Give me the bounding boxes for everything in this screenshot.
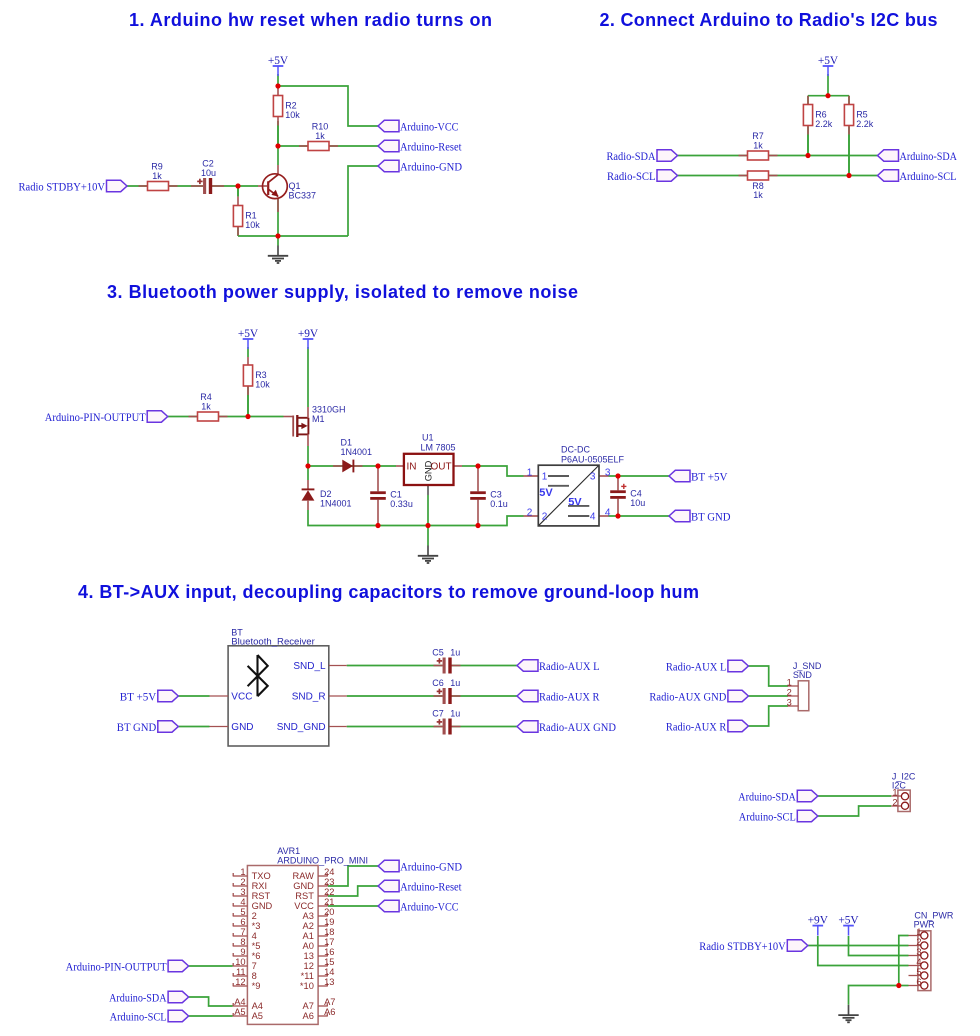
- svg-text:*9: *9: [252, 981, 261, 991]
- svg-text:+5V: +5V: [818, 55, 839, 67]
- net label Arduino-SCL (section 2): [878, 170, 957, 183]
- net label BT GND (section 3): [669, 510, 731, 523]
- power symbol +9V (CN_PWR): [808, 914, 829, 935]
- wire +9V down to M1 source: [307, 347, 309, 407]
- svg-text:6: 6: [916, 977, 921, 987]
- wire Radio-AUX GND to J_SND pin2: [748, 695, 788, 697]
- capacitor C2 10u: [191, 158, 224, 194]
- wire R2 bottom to junction: [277, 121, 279, 146]
- svg-text:A4: A4: [252, 1001, 263, 1011]
- AVR1 pin 13 (*10): [300, 977, 335, 991]
- svg-text:2: 2: [787, 687, 792, 697]
- mosfet M1 3310GH: [284, 405, 346, 447]
- svg-text:Arduino-SDA: Arduino-SDA: [900, 151, 958, 163]
- svg-text:10k: 10k: [255, 379, 270, 389]
- AVR1 pin A7 (A7): [303, 997, 336, 1011]
- wire Radio-SDA through R7 to Arduino-SDA: [678, 155, 878, 157]
- svg-text:1k: 1k: [753, 190, 763, 200]
- svg-text:10: 10: [235, 957, 245, 967]
- svg-text:Q1: Q1: [289, 181, 301, 191]
- ground (CN_PWR): [838, 1005, 858, 1023]
- svg-text:ARDUINO_PRO_MINI: ARDUINO_PRO_MINI: [277, 855, 368, 865]
- svg-text:Arduino-SDA: Arduino-SDA: [738, 792, 796, 804]
- CN_PWR pin 2: [909, 937, 928, 949]
- resistor R8 1k: [739, 171, 778, 200]
- net label Radio-SDA: [607, 150, 678, 163]
- junction C4 top / BT+5V: [615, 473, 620, 478]
- wire BT+5V flag to VCC pin: [178, 695, 209, 697]
- svg-text:5V: 5V: [539, 487, 553, 499]
- capacitor C6 1u: [432, 678, 460, 704]
- resistor R9 1k: [139, 162, 178, 191]
- wire emitter to ground rail: [277, 198, 279, 236]
- svg-text:R5: R5: [856, 109, 868, 119]
- svg-text:2: 2: [916, 937, 921, 947]
- net label Arduino-SCL (J_I2C): [739, 810, 818, 823]
- svg-text:IN: IN: [407, 461, 417, 472]
- svg-text:VCC: VCC: [231, 692, 252, 703]
- junction R6 / SDA: [805, 153, 810, 158]
- AVR1 pin 7 (4): [233, 927, 257, 941]
- AVR1 pin A6 (A6): [303, 1007, 336, 1021]
- ground (section 3): [418, 546, 438, 564]
- svg-text:11: 11: [236, 967, 246, 977]
- svg-text:BT +5V: BT +5V: [691, 472, 728, 484]
- svg-text:Arduino-GND: Arduino-GND: [400, 162, 462, 174]
- svg-text:BT +5V: BT +5V: [120, 692, 157, 704]
- junction U1 GND rail: [425, 523, 430, 528]
- svg-text:1: 1: [892, 787, 897, 797]
- svg-text:12: 12: [304, 961, 314, 971]
- wire D2 bottom to rail: [308, 510, 378, 526]
- AVR1 pin 19 (A2): [303, 917, 335, 931]
- BT pin SND_L: [329, 665, 347, 667]
- svg-text:BT GND: BT GND: [691, 512, 731, 524]
- AVR1 pin 21 (VCC): [294, 897, 334, 911]
- svg-text:3310GH: 3310GH: [312, 405, 346, 415]
- wire +5V stub to junction: [277, 74, 279, 86]
- resistor R3 10k: [243, 357, 270, 417]
- svg-text:D2: D2: [320, 489, 332, 499]
- connector CN_PWR: [909, 910, 954, 990]
- junction C1 bottom rail: [375, 523, 380, 528]
- svg-text:9: 9: [240, 947, 245, 957]
- svg-text:2: 2: [252, 911, 257, 921]
- AVR1 pin 2 (RXI): [233, 877, 267, 891]
- net label Arduino-PIN-OUTPUT (section 3): [45, 411, 168, 424]
- wire Arduino-PIN-OUTPUT flag to pin10: [189, 965, 233, 967]
- svg-text:Radio-AUX L: Radio-AUX L: [539, 661, 600, 673]
- svg-text:C2: C2: [202, 158, 214, 168]
- AVR1 pin 3 (RST): [233, 887, 271, 901]
- wire bottom rail: [378, 516, 524, 526]
- wire drain node down to D2: [307, 466, 309, 480]
- wire U1 OUT to C3 node: [462, 465, 478, 467]
- BT pin SND_GND: [329, 726, 347, 728]
- wire +5V to R3: [247, 347, 249, 357]
- net label Arduino-SCL (AVR): [110, 1010, 189, 1023]
- resistor R10 1k: [299, 122, 338, 151]
- svg-text:+5V: +5V: [238, 328, 259, 340]
- svg-text:+9V: +9V: [298, 328, 319, 340]
- svg-text:Radio-AUX R: Radio-AUX R: [666, 722, 727, 734]
- resistor R2 10k: [273, 87, 300, 147]
- resistor R1 10k: [233, 186, 260, 236]
- svg-text:R2: R2: [285, 100, 297, 110]
- svg-text:20: 20: [324, 907, 334, 917]
- svg-text:1. Arduino hw reset when radio: 1. Arduino hw reset when radio turns on: [129, 10, 492, 30]
- transistor Q1 BC337: [258, 165, 316, 212]
- junction CN_PWR ground node: [896, 983, 901, 988]
- svg-text:Arduino-GND: Arduino-GND: [400, 862, 462, 874]
- svg-text:7: 7: [252, 961, 257, 971]
- svg-text:RST: RST: [252, 891, 271, 901]
- BT pin GND: [210, 726, 229, 728]
- AVR1 pin 1 (TXO): [233, 867, 271, 881]
- svg-text:Arduino-Reset: Arduino-Reset: [400, 142, 462, 154]
- ground (section 1): [268, 246, 288, 264]
- svg-text:C5: C5: [432, 648, 444, 658]
- svg-text:10u: 10u: [201, 168, 216, 178]
- wire drain node through D1 to C1 node: [308, 465, 378, 467]
- wire +5V down to pin3: [849, 936, 909, 956]
- svg-text:4: 4: [590, 511, 596, 522]
- J_I2C pin 2: [891, 805, 901, 807]
- net label Radio-AUX R (right): [666, 720, 749, 733]
- svg-text:Radio STDBY+10V: Radio STDBY+10V: [699, 941, 786, 953]
- wire base from junction to Q1: [238, 185, 258, 187]
- AVR1 pin 10 (7): [233, 957, 257, 971]
- wire ground stub (section 1): [277, 236, 279, 246]
- AVR1 pin 11 (8): [233, 967, 257, 981]
- wire R5 bottom to SCL: [848, 127, 850, 176]
- svg-text:Radio-AUX L: Radio-AUX L: [666, 662, 727, 674]
- AVR1 pin 20 (A3): [303, 907, 335, 921]
- svg-text:Radio-SCL: Radio-SCL: [607, 171, 656, 183]
- svg-text:+5V: +5V: [838, 914, 859, 926]
- power symbol +9V (section 3): [298, 328, 319, 349]
- svg-text:Bluetooth_Receiver: Bluetooth_Receiver: [231, 637, 314, 647]
- net label Radio-SCL: [607, 170, 678, 183]
- wire SND_R through C6 to Radio-AUX R flag: [347, 695, 517, 697]
- svg-text:*11: *11: [301, 971, 314, 981]
- capacitor C3 0.1u: [470, 466, 508, 526]
- svg-text:*5: *5: [252, 941, 261, 951]
- svg-text:1k: 1k: [201, 402, 211, 412]
- wire BTGND flag to GND pin: [178, 726, 209, 728]
- connector J_SND: [787, 661, 822, 711]
- svg-text:Arduino-Reset: Arduino-Reset: [400, 882, 462, 894]
- svg-text:R6: R6: [815, 109, 827, 119]
- svg-text:8: 8: [240, 937, 245, 947]
- wire M1 drain to node: [307, 446, 309, 466]
- svg-text:1k: 1k: [753, 141, 763, 151]
- net label Radio-AUX GND (left): [517, 721, 616, 734]
- AVR1 pin 22 (RST): [295, 887, 334, 901]
- svg-text:10u: 10u: [630, 498, 645, 508]
- net label Radio-AUX GND (right): [649, 690, 748, 703]
- wire ground rail: [238, 235, 348, 237]
- svg-text:A4: A4: [234, 997, 245, 1007]
- BT pin VCC: [210, 695, 229, 697]
- junction C3 bottom rail: [475, 523, 480, 528]
- net label Arduino-VCC: [378, 120, 459, 133]
- svg-text:GND: GND: [231, 722, 253, 733]
- svg-text:1u: 1u: [450, 678, 460, 688]
- svg-text:Radio-AUX GND: Radio-AUX GND: [649, 692, 726, 704]
- svg-text:2.2k: 2.2k: [815, 119, 833, 129]
- BT pin SND_R: [329, 695, 347, 697]
- wire Arduino-SCL flag to pinA5: [189, 1015, 233, 1017]
- wire pullup branch: [808, 95, 849, 97]
- svg-text:RXI: RXI: [252, 881, 268, 891]
- junction base node: [235, 183, 240, 188]
- wire SND_GND through C7 to Radio-AUX GND flag: [347, 726, 517, 728]
- wire DCDC pin3 to BT+5V: [609, 475, 670, 477]
- AVR1 pin 9 (*6): [233, 947, 261, 961]
- resistor R7 1k: [739, 131, 778, 160]
- wire U1 GND to rail: [427, 495, 429, 526]
- svg-text:4: 4: [252, 931, 257, 941]
- svg-text:5: 5: [916, 967, 921, 977]
- svg-text:A5: A5: [234, 1007, 245, 1017]
- net label Radio-AUX L (right): [666, 660, 749, 673]
- AVR1 pin 6 (*3): [233, 917, 261, 931]
- svg-text:A5: A5: [252, 1011, 263, 1021]
- CN_PWR pin 5: [909, 967, 928, 979]
- svg-text:1u: 1u: [450, 648, 460, 658]
- CN_PWR pin 3: [909, 947, 928, 959]
- svg-text:OUT: OUT: [430, 461, 451, 472]
- AVR1 pin 17 (A0): [303, 937, 335, 951]
- svg-text:1: 1: [240, 867, 245, 877]
- svg-text:AVR1: AVR1: [277, 846, 300, 856]
- AVR1 pin 23 (GND): [293, 877, 334, 891]
- svg-text:1N4001: 1N4001: [320, 499, 352, 509]
- svg-text:BC337: BC337: [289, 191, 317, 201]
- net label Arduino-Reset: [378, 140, 462, 153]
- net label Arduino-PIN-OUTPUT (AVR): [66, 960, 189, 973]
- net label Radio-AUX L (left): [517, 660, 600, 673]
- svg-text:D1: D1: [341, 437, 353, 447]
- svg-text:SND: SND: [793, 670, 813, 680]
- wire R1 bottom to rail: [237, 226, 239, 236]
- svg-text:3: 3: [240, 887, 245, 897]
- AVR1 pin 24 (RAW): [293, 867, 335, 881]
- dc-dc converter U2 P6AU-0505ELF: [524, 445, 625, 526]
- capacitor C1 0.33u: [370, 466, 413, 526]
- wire R5 top lead: [848, 96, 850, 105]
- svg-text:1: 1: [527, 467, 533, 478]
- svg-text:14: 14: [324, 967, 334, 977]
- net label Arduino-SDA (AVR): [109, 991, 189, 1004]
- svg-text:1: 1: [542, 472, 548, 483]
- svg-text:R10: R10: [312, 122, 329, 132]
- AVR1 pin 18 (A1): [303, 927, 335, 941]
- svg-text:2: 2: [542, 511, 548, 522]
- svg-text:BT GND: BT GND: [117, 722, 157, 734]
- svg-text:1N4001: 1N4001: [341, 447, 373, 457]
- connector J_I2C: [891, 771, 916, 811]
- AVR1 pin 12 (*9): [233, 977, 261, 991]
- svg-text:U1: U1: [422, 433, 434, 443]
- wire +9V down to pin4: [818, 936, 909, 966]
- svg-text:19: 19: [324, 917, 334, 927]
- svg-text:+9V: +9V: [808, 914, 829, 926]
- wire ground column to pin6: [899, 985, 909, 987]
- svg-text:C4: C4: [630, 489, 642, 499]
- svg-text:13: 13: [324, 977, 334, 987]
- net label Arduino-SDA (section 2): [878, 150, 958, 163]
- svg-text:Arduino-SDA: Arduino-SDA: [109, 993, 167, 1005]
- junction R5 / SCL: [846, 173, 851, 178]
- svg-text:Radio-AUX GND: Radio-AUX GND: [539, 722, 616, 734]
- svg-text:23: 23: [324, 877, 334, 887]
- svg-text:3: 3: [916, 947, 921, 957]
- svg-text:R1: R1: [245, 210, 257, 220]
- bluetooth receiver module BT: [210, 627, 347, 746]
- svg-text:3: 3: [787, 697, 792, 707]
- svg-text:Arduino-PIN-OUTPUT: Arduino-PIN-OUTPUT: [66, 962, 167, 974]
- AVR1 pin 16 (13): [304, 947, 335, 961]
- net label Arduino-GND (AVR): [378, 860, 462, 873]
- power symbol +5V (section 2): [818, 55, 839, 76]
- net label BT +5V (section 3): [669, 470, 728, 483]
- wire SND_L through C5 to Radio-AUX L flag: [347, 665, 517, 667]
- svg-text:SND_L: SND_L: [293, 661, 326, 672]
- svg-text:*3: *3: [252, 921, 261, 931]
- J_SND pin 3: [788, 705, 799, 707]
- wire Radio-AUX R to J_SND pin3: [748, 706, 788, 726]
- bluetooth rune icon: [248, 655, 268, 696]
- regulator U1 LM 7805: [396, 433, 462, 496]
- resistor R5 2.2k: [844, 96, 873, 176]
- svg-text:GND: GND: [252, 901, 273, 911]
- wire VCC rail top: [278, 86, 378, 126]
- svg-text:4: 4: [240, 897, 245, 907]
- diode D1 1N4001: [333, 437, 372, 472]
- svg-text:A6: A6: [324, 1007, 335, 1017]
- svg-text:2: 2: [892, 797, 897, 807]
- svg-text:R4: R4: [200, 392, 212, 402]
- wire base junction down to R1: [237, 186, 239, 196]
- wire C3 node to DCDC pin1: [478, 466, 524, 476]
- wire +5V stub (section 2): [827, 74, 829, 96]
- svg-text:R7: R7: [752, 131, 764, 141]
- svg-text:1: 1: [787, 677, 792, 687]
- svg-text:17: 17: [324, 937, 334, 947]
- svg-text:Arduino-SCL: Arduino-SCL: [900, 171, 957, 183]
- wire ground run: [849, 986, 899, 1005]
- wire Arduino-VCC flag to pin21: [328, 905, 378, 907]
- svg-text:*6: *6: [252, 951, 261, 961]
- svg-text:DC-DC: DC-DC: [561, 445, 590, 455]
- svg-text:Arduino-VCC: Arduino-VCC: [400, 902, 459, 914]
- junction C4 bottom / BTGND: [615, 513, 620, 518]
- wire Radio STDBY+10V through R9 and C2 to base junction: [127, 185, 238, 187]
- svg-text:TXO: TXO: [252, 871, 271, 881]
- svg-text:Radio-AUX R: Radio-AUX R: [539, 692, 600, 704]
- wire Radio-SCL through R8 to Arduino-SCL: [678, 175, 878, 177]
- wire C1 node to U1 IN: [378, 465, 396, 467]
- svg-text:3: 3: [605, 467, 611, 478]
- wire Arduino-GND flag down to ground rail: [348, 166, 378, 236]
- svg-text:M1: M1: [312, 414, 325, 424]
- CN_PWR pin 6: [909, 977, 928, 989]
- svg-text:1k: 1k: [315, 131, 325, 141]
- wire Arduino-GND flag to pin23: [328, 866, 378, 886]
- net label Arduino-GND: [378, 160, 462, 173]
- microcontroller AVR1 ARDUINO_PRO_MINI: [247, 846, 368, 1025]
- svg-text:A7: A7: [324, 997, 335, 1007]
- svg-text:A6: A6: [303, 1011, 314, 1021]
- svg-text:4: 4: [605, 507, 611, 518]
- AVR1 pin 4 (GND): [233, 897, 273, 911]
- wire R6 bottom to SDA: [807, 127, 809, 156]
- svg-text:C6: C6: [432, 678, 444, 688]
- svg-text:SND_GND: SND_GND: [277, 722, 326, 733]
- wire collector: [277, 146, 279, 165]
- capacitor C5 1u: [432, 648, 460, 674]
- svg-text:A7: A7: [303, 1001, 314, 1011]
- svg-text:22: 22: [324, 887, 334, 897]
- svg-text:1k: 1k: [152, 171, 162, 181]
- svg-text:7: 7: [240, 927, 245, 937]
- svg-text:8: 8: [252, 971, 257, 981]
- AVR1 pin 5 (2): [233, 907, 257, 921]
- wire ground stub (section 3): [427, 526, 429, 546]
- wire Arduino-SDA flag to pinA4: [189, 997, 233, 1006]
- svg-text:18: 18: [324, 927, 334, 937]
- wire Arduino-PIN-OUTPUT through R4 to gate: [168, 416, 284, 418]
- svg-text:GND: GND: [293, 881, 314, 891]
- capacitor C4 10u: [610, 476, 645, 516]
- svg-text:Arduino-VCC: Arduino-VCC: [400, 122, 459, 134]
- svg-text:Arduino-SCL: Arduino-SCL: [110, 1012, 167, 1024]
- svg-text:13: 13: [304, 951, 314, 961]
- wire Radio STDBY+10V to CN_PWR pin2: [808, 945, 909, 947]
- CN_PWR pin 1: [909, 927, 928, 939]
- AVR1 pin 8 (*5): [233, 937, 261, 951]
- diode D2 1N4001: [302, 480, 352, 510]
- wire pin1 to ground column: [899, 936, 909, 986]
- wire R6 top lead: [807, 96, 809, 105]
- svg-text:*10: *10: [300, 981, 314, 991]
- svg-text:C3: C3: [490, 490, 502, 500]
- svg-text:A1: A1: [303, 931, 314, 941]
- svg-text:A0: A0: [303, 941, 314, 951]
- svg-text:0.1u: 0.1u: [490, 499, 508, 509]
- svg-text:RAW: RAW: [293, 871, 315, 881]
- net label Radio STDBY+10V: [19, 180, 128, 193]
- junction drain node: [305, 463, 310, 468]
- wire Radio-AUX L to J_SND pin1: [748, 666, 788, 686]
- wire DCDC pin4 to BTGND: [609, 515, 670, 517]
- capacitor C7 1u: [432, 709, 460, 735]
- J_SND pin 1: [788, 685, 799, 687]
- power symbol +5V (section 1): [268, 55, 289, 76]
- svg-text:Arduino-PIN-OUTPUT: Arduino-PIN-OUTPUT: [45, 412, 146, 424]
- wire Arduino-Reset flag to pin22: [328, 886, 378, 896]
- J_SND pin 2: [788, 695, 799, 697]
- svg-text:16: 16: [324, 947, 334, 957]
- junction gate node: [245, 414, 250, 419]
- svg-text:0.33u: 0.33u: [390, 499, 413, 509]
- AVR1 pin A4 (A4): [233, 997, 263, 1011]
- AVR1 pin 15 (12): [304, 957, 335, 971]
- net label Arduino-VCC (AVR): [378, 900, 459, 913]
- resistor R4 1k: [189, 392, 228, 421]
